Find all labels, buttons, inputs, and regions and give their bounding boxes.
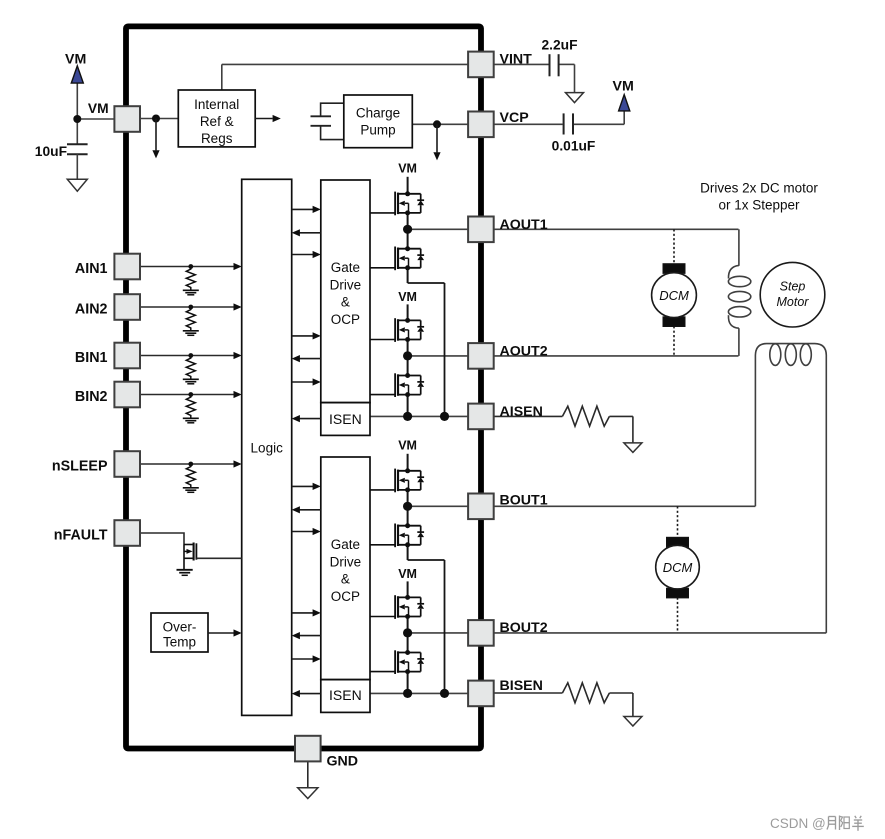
svg-text:Drive: Drive (330, 277, 362, 292)
svg-text:OCP: OCP (331, 312, 360, 327)
svg-text:Drives 2x DC motor: Drives 2x DC motor (700, 180, 818, 195)
svg-text:DCM: DCM (659, 288, 689, 303)
svg-text:AISEN: AISEN (500, 404, 543, 420)
svg-text:2.2uF: 2.2uF (541, 37, 577, 52)
svg-text:Gate: Gate (331, 260, 360, 275)
svg-text:Internal: Internal (194, 97, 239, 112)
svg-text:&: & (341, 572, 350, 587)
svg-text:nSLEEP: nSLEEP (52, 458, 108, 474)
svg-text:VM: VM (88, 101, 109, 116)
svg-text:VM: VM (398, 162, 417, 176)
svg-text:Over-: Over- (163, 620, 197, 635)
svg-text:ISEN: ISEN (329, 687, 362, 703)
svg-text:0.01uF: 0.01uF (552, 138, 596, 153)
svg-text:AIN1: AIN1 (75, 261, 108, 277)
svg-text:BIN1: BIN1 (75, 350, 108, 366)
svg-text:AOUT2: AOUT2 (500, 344, 548, 360)
svg-text:10uF: 10uF (35, 144, 67, 159)
svg-text:Step: Step (780, 280, 806, 294)
svg-text:Ref &: Ref & (200, 114, 234, 129)
svg-text:&: & (341, 295, 350, 310)
svg-text:VM: VM (398, 290, 417, 304)
svg-text:Charge: Charge (356, 106, 400, 121)
svg-text:CSDN @: CSDN @ (770, 816, 826, 831)
svg-text:GND: GND (327, 754, 359, 770)
svg-text:Gate: Gate (331, 537, 360, 552)
svg-text:DCM: DCM (663, 560, 693, 575)
svg-text:nFAULT: nFAULT (54, 527, 108, 543)
svg-text:Temp: Temp (163, 635, 196, 650)
svg-text:Regs: Regs (201, 131, 233, 146)
svg-text:VINT: VINT (500, 51, 533, 67)
svg-text:VM: VM (398, 567, 417, 581)
svg-text:BOUT2: BOUT2 (500, 620, 548, 636)
svg-text:Motor: Motor (777, 295, 810, 309)
svg-text:Drive: Drive (330, 554, 362, 569)
svg-text:Pump: Pump (360, 123, 395, 138)
svg-text:Logic: Logic (251, 441, 284, 456)
svg-text:OCP: OCP (331, 589, 360, 604)
svg-text:BOUT1: BOUT1 (500, 493, 548, 509)
svg-text:BIN2: BIN2 (75, 389, 108, 405)
svg-text:VCP: VCP (500, 110, 529, 126)
svg-text:BISEN: BISEN (500, 678, 543, 694)
svg-text:ISEN: ISEN (329, 411, 362, 427)
svg-text:VM: VM (65, 51, 86, 67)
svg-text:AOUT1: AOUT1 (500, 217, 548, 233)
svg-text:VM: VM (398, 439, 417, 453)
svg-text:or 1x Stepper: or 1x Stepper (718, 197, 800, 212)
svg-text:AIN2: AIN2 (75, 301, 108, 317)
svg-text:VM: VM (613, 79, 634, 95)
